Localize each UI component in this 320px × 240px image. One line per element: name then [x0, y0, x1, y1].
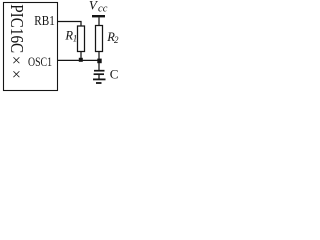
- svg-text:1: 1: [73, 34, 78, 44]
- wire RB1 pin to R1 top: [58, 22, 82, 27]
- ground bar 1: [93, 78, 106, 80]
- node junction R2 / C / OSC1 net: [97, 59, 101, 64]
- resistor R2: [96, 26, 103, 52]
- wire capacitor to ground: [98, 75, 100, 79]
- capacitor C top plate: [94, 70, 105, 72]
- svg-text:OSC1: OSC1: [28, 54, 52, 69]
- wire Vcc bar to R2 top: [98, 17, 100, 25]
- wire R1 bottom lead: [80, 52, 82, 61]
- ground bar 2: [96, 82, 102, 84]
- background: [0, 0, 126, 96]
- capacitor C bottom plate: [94, 73, 104, 75]
- node junction R1 / OSC1 net: [79, 58, 83, 62]
- wire R2 bottom lead: [98, 52, 100, 61]
- svg-text:×: ×: [12, 67, 21, 84]
- svg-text:cc: cc: [98, 3, 108, 14]
- resistor R1: [78, 26, 85, 52]
- svg-text:2: 2: [114, 35, 119, 45]
- svg-text:C: C: [110, 66, 119, 81]
- power Vcc terminal bar: [92, 15, 105, 17]
- wire OSC1 net: [58, 59, 102, 61]
- chip U1 PIC16Cxx box: [4, 3, 58, 91]
- wire junction to capacitor: [98, 60, 100, 70]
- svg-text:PIC16C: PIC16C: [7, 4, 27, 53]
- svg-text:RB1: RB1: [34, 14, 55, 29]
